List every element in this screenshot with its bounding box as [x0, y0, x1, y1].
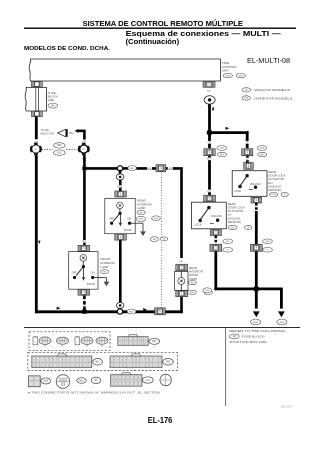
- svg-text:M57: M57: [152, 341, 157, 343]
- svg-text:L/R: L/R: [179, 261, 183, 263]
- svg-text:R/G: R/G: [69, 133, 73, 135]
- svg-text:UNLOCK: UNLOCK: [211, 214, 222, 218]
- svg-text:REFER TO THE FOLLOWING.: REFER TO THE FOLLOWING.: [229, 329, 286, 333]
- svg-text:DOOR: DOOR: [87, 282, 95, 286]
- svg-text:M15: M15: [57, 145, 62, 147]
- svg-text:(Continuación): (Continuación): [126, 37, 180, 46]
- svg-text:R/G: R/G: [82, 241, 86, 243]
- svg-text:LAMP: LAMP: [100, 265, 108, 269]
- svg-text:ON: ON: [91, 271, 95, 275]
- svg-text:: HARDTOP MODELS: : HARDTOP MODELS: [252, 96, 293, 100]
- svg-text:B116: B116: [145, 380, 151, 382]
- svg-text:SENSOR): SENSOR): [228, 220, 241, 224]
- svg-text:JUNCTION BOX (J/B): JUNCTION BOX (J/B): [229, 340, 266, 344]
- svg-text:DOOR: DOOR: [124, 228, 132, 232]
- svg-text:R/G: R/G: [148, 168, 152, 170]
- svg-text:MODELOS DE COND. DCHA.: MODELOS DE COND. DCHA.: [24, 46, 111, 52]
- svg-text:OFF: OFF: [109, 216, 115, 220]
- svg-text:EL-176: EL-176: [148, 415, 173, 425]
- svg-text:LAMP: LAMP: [189, 277, 197, 281]
- svg-text:M62: M62: [79, 380, 84, 382]
- svg-text:W: W: [227, 250, 229, 252]
- svg-text:B116: B116: [253, 322, 259, 324]
- svg-text:ON: ON: [127, 216, 131, 220]
- svg-text:UNLOCK: UNLOCK: [250, 182, 261, 186]
- svg-text:OFF: OFF: [72, 271, 78, 275]
- svg-text:● THIS CONNECTOR IS NOT SHOWN: ● THIS CONNECTOR IS NOT SHOWN IN “HARNES…: [28, 390, 161, 394]
- svg-text:YEL167D: YEL167D: [281, 404, 293, 408]
- svg-text:: WAGON MODELS: : WAGON MODELS: [252, 88, 290, 92]
- svg-text:M23: M23: [44, 381, 49, 383]
- svg-text:W: W: [284, 194, 286, 196]
- svg-text:B10: B10: [57, 152, 62, 154]
- svg-text:HT: HT: [245, 97, 249, 100]
- svg-text:(J/B): (J/B): [48, 98, 55, 102]
- svg-text:SENSOR): SENSOR): [268, 188, 281, 192]
- svg-text:R/G: R/G: [117, 186, 121, 188]
- svg-text:LOCK: LOCK: [195, 222, 202, 226]
- svg-text:EL-MULTI-08: EL-MULTI-08: [247, 56, 290, 65]
- svg-text:D55: D55: [166, 362, 171, 364]
- svg-text:B216: B216: [279, 322, 285, 324]
- svg-text:SISTEMA DE CONTROL REMOTO MÚLT: SISTEMA DE CONTROL REMOTO MÚLTIPLE: [83, 19, 244, 28]
- svg-text:-FUSE BLOCK-: -FUSE BLOCK-: [241, 335, 266, 339]
- svg-text:UNIT: UNIT: [222, 68, 229, 72]
- svg-text:LAMP: LAMP: [137, 206, 145, 210]
- svg-text:L/R: L/R: [169, 168, 173, 170]
- svg-text:MULTI-09: MULTI-09: [41, 132, 54, 136]
- svg-text:B10: B10: [96, 362, 101, 364]
- svg-text:W: W: [267, 250, 269, 252]
- svg-text:W: W: [247, 227, 249, 229]
- svg-text:LOCK: LOCK: [234, 189, 241, 193]
